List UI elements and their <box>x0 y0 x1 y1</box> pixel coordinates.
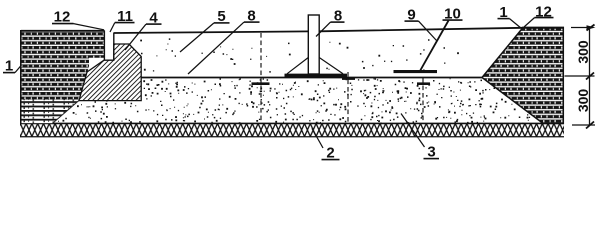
subgrade crosshatch strip (2) <box>20 123 564 136</box>
edge board (4), 45deg hatched block <box>79 44 141 101</box>
dimension chain right <box>565 25 596 129</box>
label 4 <box>125 10 162 51</box>
label 8 second <box>316 8 345 37</box>
label 10 <box>443 6 463 23</box>
concrete base stipple (3) <box>58 38 544 124</box>
label 5 <box>180 8 230 52</box>
label 3 <box>401 114 439 161</box>
label 9 <box>405 7 437 41</box>
rail pad tick B <box>342 77 355 80</box>
rail pad tick C <box>417 82 430 85</box>
fresh concrete slope edge / leader 10 <box>420 21 449 72</box>
stake post (8) <box>285 15 348 75</box>
top surface line <box>114 28 523 33</box>
gap board slot (11) <box>104 31 113 61</box>
label 1 left <box>3 58 22 75</box>
label 12 left <box>52 9 104 30</box>
dashed rail axis A <box>260 33 262 123</box>
label 12 right <box>524 4 554 28</box>
right brick wall (12) <box>482 28 564 124</box>
screed board (9) <box>394 70 438 73</box>
label 11 <box>110 8 135 32</box>
left brick wall (12) <box>21 30 105 123</box>
rail pad tick A <box>252 82 270 85</box>
base surface line <box>141 77 482 79</box>
label 2 <box>312 129 340 162</box>
dashed rail axis B <box>347 72 349 122</box>
white wedge below wall right corner <box>88 58 105 73</box>
svg-text:300: 300 <box>575 89 591 113</box>
left wall footing courses <box>22 100 80 124</box>
label 1 right <box>498 4 522 29</box>
label 8 first <box>188 8 260 75</box>
svg-text:300: 300 <box>575 40 591 64</box>
dashed rail axis C <box>422 78 424 124</box>
